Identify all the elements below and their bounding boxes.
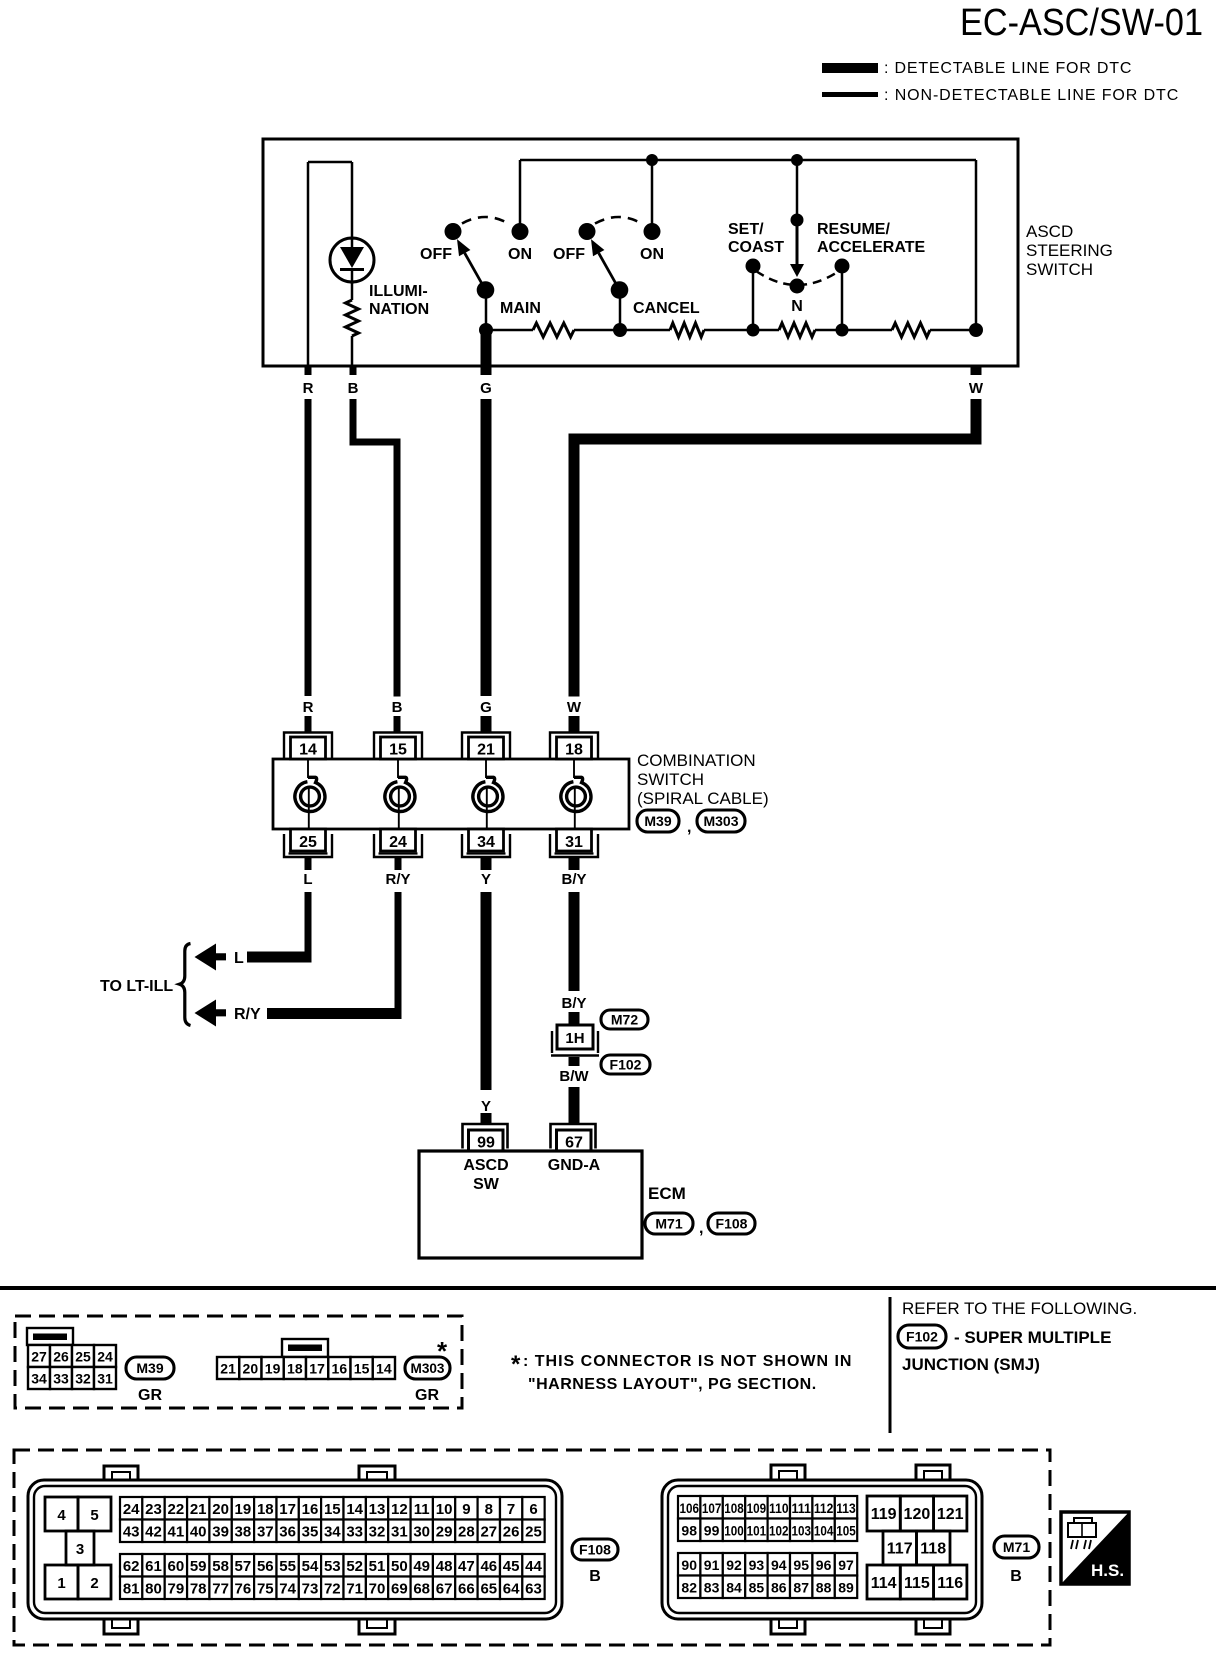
svg-text:R/Y: R/Y	[234, 1006, 261, 1023]
svg-text:1H: 1H	[565, 1030, 584, 1047]
svg-text:: DETECTABLE LINE FOR DTC: : DETECTABLE LINE FOR DTC	[884, 60, 1132, 77]
svg-text:4: 4	[57, 1507, 66, 1524]
svg-text:118: 118	[920, 1541, 946, 1558]
connector face M39	[27, 1328, 73, 1345]
svg-text:84: 84	[726, 1580, 742, 1596]
connector id M72	[601, 1010, 648, 1029]
spiral cable coil 18	[561, 777, 591, 811]
svg-text:69: 69	[391, 1581, 408, 1598]
wire BY stub above 1H	[569, 1012, 580, 1025]
svg-text:: NON-DETECTABLE LINE FOR DTC: : NON-DETECTABLE LINE FOR DTC	[884, 87, 1179, 104]
wire B stub below box	[350, 366, 357, 375]
legend non-detectable line bar	[822, 92, 878, 97]
svg-text:23: 23	[145, 1501, 162, 1518]
svg-text:2: 2	[90, 1575, 98, 1592]
svg-text:9: 9	[462, 1501, 470, 1518]
wire R stub above pin14	[305, 716, 312, 733]
svg-text:16: 16	[302, 1501, 319, 1518]
svg-text:L: L	[234, 950, 244, 967]
wire W stub below box	[971, 366, 982, 375]
dashed ECM connector box	[14, 1450, 1050, 1645]
svg-text:M39: M39	[644, 813, 671, 829]
svg-text:B/Y: B/Y	[561, 995, 586, 1012]
svg-text:REFER TO THE FOLLOWING.: REFER TO THE FOLLOWING.	[902, 1299, 1137, 1318]
svg-text:M303: M303	[703, 813, 738, 829]
svg-text:R: R	[303, 380, 314, 397]
wire bottom bus seg2	[574, 329, 670, 332]
svg-text:104: 104	[814, 1523, 834, 1539]
connector id F102	[601, 1055, 650, 1074]
wire BW stub below 1H	[569, 1057, 580, 1066]
svg-text:33: 33	[53, 1371, 69, 1387]
connector id M39	[637, 810, 679, 832]
svg-text:53: 53	[324, 1558, 341, 1575]
contact RESUME/ACCELERATE	[835, 259, 850, 274]
svg-text:60: 60	[168, 1558, 185, 1575]
svg-text:GR: GR	[138, 1387, 162, 1404]
svg-text:19: 19	[235, 1501, 252, 1518]
svg-text:62: 62	[123, 1558, 140, 1575]
wire CANCEL pivot to bus	[619, 289, 622, 330]
svg-text:17: 17	[309, 1361, 325, 1377]
wire SET to bus	[752, 266, 755, 330]
svg-text:98: 98	[681, 1523, 697, 1539]
svg-text:73: 73	[302, 1581, 319, 1598]
switch CANCEL arm	[599, 253, 620, 290]
connector face M71	[771, 1465, 805, 1480]
svg-text:70: 70	[369, 1581, 386, 1598]
svg-text:15: 15	[324, 1501, 341, 1518]
svg-text:24: 24	[123, 1501, 140, 1518]
svg-text:H.S.: H.S.	[1091, 1561, 1124, 1580]
svg-text:99: 99	[477, 1135, 495, 1152]
svg-text:110: 110	[769, 1500, 789, 1516]
arrow L	[195, 944, 227, 971]
svg-text:74: 74	[279, 1581, 296, 1598]
svg-text:L: L	[303, 871, 312, 888]
SMJ connector 1H	[557, 1025, 593, 1049]
svg-text:F102: F102	[610, 1057, 642, 1073]
svg-text:55: 55	[279, 1558, 296, 1575]
connector id F102 legend	[898, 1325, 946, 1348]
svg-text:96: 96	[816, 1557, 832, 1573]
svg-text:24: 24	[389, 834, 407, 851]
svg-text:97: 97	[838, 1557, 854, 1573]
svg-text:ACCELERATE: ACCELERATE	[817, 239, 925, 256]
wire G vertical	[481, 399, 492, 696]
svg-text:25: 25	[525, 1524, 542, 1541]
svg-text:Y: Y	[481, 1098, 491, 1115]
spiral cable coil 15	[385, 777, 415, 811]
svg-text:34: 34	[477, 834, 495, 851]
pin 21	[462, 733, 510, 760]
svg-text:45: 45	[503, 1558, 520, 1575]
svg-text:(SPIRAL CABLE): (SPIRAL CABLE)	[637, 789, 769, 808]
switch MAIN OFF contact	[445, 223, 462, 240]
pin 18	[550, 733, 598, 760]
node N	[790, 279, 805, 294]
combination switch box	[273, 759, 629, 829]
svg-text:65: 65	[480, 1581, 497, 1598]
svg-text:115: 115	[904, 1575, 930, 1592]
svg-text:71: 71	[346, 1581, 363, 1598]
svg-text:29: 29	[436, 1524, 453, 1541]
svg-text:M72: M72	[611, 1012, 638, 1028]
connector id M39 face	[126, 1357, 174, 1379]
svg-text:17: 17	[279, 1501, 296, 1518]
svg-text:11: 11	[414, 1501, 430, 1518]
wire through spiral 15	[397, 759, 399, 778]
ECM pin 99	[463, 1124, 508, 1149]
svg-text:,: ,	[699, 1220, 703, 1237]
svg-text:31: 31	[97, 1371, 113, 1387]
svg-text:R/Y: R/Y	[385, 871, 410, 888]
wire bottom bus seg4	[815, 329, 892, 332]
svg-text:RESUME/: RESUME/	[817, 221, 890, 238]
svg-text:NATION: NATION	[369, 301, 429, 318]
wire RY vertical	[395, 892, 402, 1019]
wire B to LED	[351, 162, 354, 240]
svg-text:42: 42	[145, 1524, 162, 1541]
arrow R/Y	[195, 1000, 227, 1027]
svg-text:14: 14	[346, 1501, 363, 1518]
svg-text:101: 101	[747, 1523, 767, 1539]
svg-text:STEERING: STEERING	[1026, 241, 1113, 260]
connector face M303	[282, 1339, 328, 1357]
svg-text:49: 49	[413, 1558, 430, 1575]
svg-text:14: 14	[299, 742, 317, 759]
node dot bus-SET2	[747, 324, 760, 337]
wire W stub above pin18	[569, 716, 580, 733]
svg-text:85: 85	[749, 1580, 765, 1596]
svg-text:52: 52	[346, 1558, 363, 1575]
connector id F108	[708, 1213, 755, 1234]
svg-text:15: 15	[354, 1361, 370, 1377]
svg-text:25: 25	[75, 1349, 91, 1365]
svg-text:SWITCH: SWITCH	[1026, 260, 1093, 279]
resistor R-set	[779, 323, 815, 337]
pin 14	[284, 733, 332, 760]
resistor R-main	[533, 323, 574, 337]
resistor illumination	[351, 282, 354, 300]
wire BY vertical	[569, 892, 580, 991]
wire L vertical	[305, 892, 312, 963]
dashed arc SET-N-RESUME	[756, 271, 839, 285]
svg-text:OFF: OFF	[553, 246, 585, 263]
ASCD steering switch box	[263, 139, 1018, 366]
wire RESUME to bus	[841, 266, 844, 330]
svg-text:37: 37	[257, 1524, 274, 1541]
svg-text:B/Y: B/Y	[561, 871, 586, 888]
node dot bus-W	[969, 323, 983, 337]
svg-text:68: 68	[413, 1581, 430, 1598]
switch CANCEL riser	[651, 160, 654, 232]
svg-text:G: G	[480, 380, 492, 397]
switch MAIN arm	[465, 253, 486, 290]
arrow to N	[796, 220, 799, 266]
svg-text:43: 43	[123, 1524, 140, 1541]
svg-text:ON: ON	[508, 246, 532, 263]
vertical divider	[889, 1297, 892, 1433]
svg-text:82: 82	[681, 1580, 697, 1596]
svg-text:48: 48	[436, 1558, 453, 1575]
svg-text:ILLUMI-: ILLUMI-	[369, 283, 428, 300]
wire G thick inside box	[481, 330, 492, 366]
svg-text:20: 20	[243, 1361, 259, 1377]
svg-text:27: 27	[31, 1349, 47, 1365]
svg-text:N: N	[791, 298, 803, 315]
svg-text:EC-ASC/SW-01: EC-ASC/SW-01	[960, 2, 1203, 44]
H.S. view icon	[1061, 1512, 1129, 1584]
svg-text:7: 7	[507, 1501, 515, 1518]
resistor R-resume	[892, 323, 930, 337]
svg-text:*: *	[511, 1351, 521, 1378]
svg-text:W: W	[567, 699, 582, 716]
svg-text:58: 58	[212, 1558, 229, 1575]
svg-text:78: 78	[190, 1581, 207, 1598]
svg-text:"HARNESS LAYOUT", PG SECTION.: "HARNESS LAYOUT", PG SECTION.	[528, 1376, 817, 1393]
pin 25	[284, 834, 332, 857]
node dot bus-SET	[791, 154, 803, 166]
svg-text:95: 95	[793, 1557, 809, 1573]
connector id M71 face	[994, 1536, 1039, 1558]
switch CANCEL pivot	[611, 281, 629, 299]
svg-text:20: 20	[212, 1501, 229, 1518]
svg-text:33: 33	[346, 1524, 363, 1541]
svg-text:JUNCTION (SMJ): JUNCTION (SMJ)	[902, 1355, 1040, 1374]
dashed connector box	[15, 1316, 462, 1408]
wire BY stub below pin31	[569, 857, 580, 870]
svg-text:103: 103	[791, 1523, 811, 1539]
svg-text:107: 107	[702, 1500, 722, 1516]
svg-text:M39: M39	[136, 1360, 163, 1376]
svg-text:15: 15	[389, 742, 407, 759]
connector id M303 face	[405, 1357, 450, 1379]
svg-text:67: 67	[565, 1135, 583, 1152]
svg-text:39: 39	[212, 1524, 229, 1541]
wire MAIN pivot to bus	[485, 289, 488, 330]
wire R vertical	[305, 399, 312, 696]
svg-text:80: 80	[145, 1581, 162, 1598]
connector id F108 face	[572, 1539, 618, 1560]
wire right riser W	[975, 160, 978, 330]
svg-text:16: 16	[332, 1361, 348, 1377]
wire bottom bus seg1	[486, 329, 533, 332]
wire G stub below box	[481, 366, 492, 375]
svg-text:B: B	[1010, 1568, 1022, 1585]
svg-text:B: B	[589, 1568, 601, 1585]
svg-text:34: 34	[31, 1371, 47, 1387]
spiral cable coil 21	[473, 777, 503, 811]
svg-text:46: 46	[480, 1558, 497, 1575]
svg-text:19: 19	[265, 1361, 281, 1377]
node dot SET riser	[791, 214, 804, 227]
horizontal rule	[0, 1286, 1216, 1290]
svg-text:56: 56	[257, 1558, 274, 1575]
svg-text:SWITCH: SWITCH	[637, 770, 704, 789]
svg-text:47: 47	[458, 1558, 475, 1575]
svg-text:66: 66	[458, 1581, 475, 1598]
svg-text:31: 31	[391, 1524, 408, 1541]
wire L stub below pin25	[305, 857, 312, 870]
svg-text:59: 59	[190, 1558, 207, 1575]
svg-text:92: 92	[726, 1557, 742, 1573]
switch MAIN riser	[519, 160, 522, 232]
pin 34	[462, 834, 510, 857]
svg-text:SW: SW	[473, 1176, 500, 1193]
svg-text:MAIN: MAIN	[500, 300, 541, 317]
svg-text:111: 111	[791, 1500, 811, 1516]
contact SET/COAST	[746, 259, 761, 274]
svg-text:34: 34	[324, 1524, 341, 1541]
svg-text:36: 36	[279, 1524, 296, 1541]
svg-text:67: 67	[436, 1581, 453, 1598]
svg-text:94: 94	[771, 1557, 787, 1573]
wire through spiral 18	[573, 759, 575, 778]
svg-text:COAST: COAST	[728, 239, 784, 256]
svg-text:21: 21	[190, 1501, 207, 1518]
svg-text:89: 89	[838, 1580, 854, 1596]
svg-text:57: 57	[235, 1558, 252, 1575]
svg-text:30: 30	[413, 1524, 430, 1541]
wire bottom bus seg3	[704, 329, 779, 332]
switch MAIN ON contact	[512, 223, 529, 240]
svg-text:18: 18	[287, 1361, 303, 1377]
svg-text:35: 35	[302, 1524, 319, 1541]
svg-text:24: 24	[97, 1349, 113, 1365]
svg-text:44: 44	[525, 1558, 542, 1575]
svg-text:B/W: B/W	[559, 1068, 589, 1085]
svg-text:64: 64	[503, 1581, 520, 1598]
svg-text:21: 21	[477, 742, 495, 759]
wire W vertical jog	[971, 399, 982, 445]
svg-text:76: 76	[235, 1581, 252, 1598]
svg-text:31: 31	[565, 834, 583, 851]
svg-text:ASCD: ASCD	[1026, 222, 1073, 241]
svg-text:W: W	[969, 380, 984, 397]
svg-text:8: 8	[485, 1501, 493, 1518]
legend detectable line bar	[822, 63, 878, 73]
svg-text:F102: F102	[906, 1329, 938, 1345]
LED illumination D1	[330, 238, 374, 282]
svg-text:83: 83	[704, 1580, 720, 1596]
svg-text:R: R	[303, 699, 314, 716]
svg-text:21: 21	[220, 1361, 236, 1377]
svg-text:114: 114	[871, 1575, 897, 1592]
switch MAIN dashed arc	[462, 217, 509, 224]
svg-text:F108: F108	[716, 1216, 748, 1232]
svg-text:41: 41	[168, 1524, 185, 1541]
svg-text:OFF: OFF	[420, 246, 452, 263]
switch MAIN pivot	[477, 281, 495, 299]
svg-text:117: 117	[887, 1541, 913, 1558]
svg-text:50: 50	[391, 1558, 408, 1575]
svg-text:GND-A: GND-A	[548, 1157, 601, 1174]
switch CANCEL dashed arc	[595, 217, 642, 224]
svg-text:ECM: ECM	[648, 1184, 686, 1203]
connector face F108	[104, 1466, 138, 1481]
svg-text:63: 63	[525, 1581, 542, 1598]
svg-text:26: 26	[503, 1524, 520, 1541]
resistor R-cancel	[670, 323, 704, 337]
svg-text:40: 40	[190, 1524, 207, 1541]
svg-text:GR: GR	[415, 1387, 439, 1404]
svg-text:1: 1	[57, 1575, 65, 1592]
svg-text:102: 102	[769, 1523, 789, 1539]
svg-text:SET/: SET/	[728, 221, 764, 238]
svg-text:87: 87	[793, 1580, 809, 1596]
svg-text:32: 32	[369, 1524, 386, 1541]
svg-text:CANCEL: CANCEL	[633, 300, 700, 317]
svg-text:ON: ON	[640, 246, 664, 263]
wire through spiral 14	[307, 759, 309, 778]
svg-text:3: 3	[76, 1541, 84, 1558]
wire Y stub above pin99	[481, 1113, 492, 1124]
svg-text:M303: M303	[411, 1360, 445, 1376]
svg-text:88: 88	[816, 1580, 832, 1596]
node dot bus-CANCEL-pivot	[613, 323, 627, 337]
wire SET riser	[796, 160, 799, 220]
ECM box	[419, 1151, 642, 1258]
svg-text:25: 25	[299, 834, 317, 851]
svg-text:G: G	[480, 699, 492, 716]
svg-text:Y: Y	[481, 871, 491, 888]
brace	[180, 944, 191, 1026]
svg-text:ASCD: ASCD	[463, 1157, 508, 1174]
svg-text:22: 22	[168, 1501, 185, 1518]
svg-text:81: 81	[123, 1581, 140, 1598]
svg-text:38: 38	[235, 1524, 252, 1541]
wire R stub below box	[305, 366, 312, 375]
svg-text:6: 6	[529, 1501, 537, 1518]
svg-text:26: 26	[53, 1349, 69, 1365]
svg-text:113: 113	[836, 1500, 856, 1516]
svg-text:105: 105	[836, 1523, 856, 1539]
svg-text:54: 54	[302, 1558, 319, 1575]
svg-text:- SUPER MULTIPLE: - SUPER MULTIPLE	[954, 1328, 1111, 1347]
wire G stub above pin21	[481, 716, 492, 733]
wire Y vertical	[481, 892, 492, 1090]
svg-text:10: 10	[436, 1501, 453, 1518]
svg-text:99: 99	[704, 1523, 720, 1539]
svg-text:18: 18	[257, 1501, 274, 1518]
svg-text:77: 77	[212, 1581, 229, 1598]
wire through spiral 21	[485, 759, 487, 778]
svg-text:86: 86	[771, 1580, 787, 1596]
svg-text:61: 61	[145, 1558, 162, 1575]
svg-text:12: 12	[391, 1501, 408, 1518]
svg-text:13: 13	[369, 1501, 386, 1518]
wire RY stub below pin24	[395, 857, 402, 870]
svg-text:M71: M71	[1003, 1539, 1030, 1555]
svg-text:109: 109	[747, 1500, 767, 1516]
ECM pin 67	[551, 1124, 596, 1149]
svg-text:90: 90	[681, 1557, 697, 1573]
svg-text:75: 75	[257, 1581, 274, 1598]
svg-text:14: 14	[376, 1361, 392, 1377]
pin 24	[374, 834, 422, 857]
wire R inside box	[307, 162, 310, 366]
svg-text:M71: M71	[655, 1216, 682, 1232]
svg-text:F108: F108	[579, 1542, 611, 1558]
node dot bus-CANCEL	[646, 154, 658, 166]
svg-text:32: 32	[75, 1371, 91, 1387]
svg-text:112: 112	[814, 1500, 834, 1516]
svg-text:27: 27	[480, 1524, 497, 1541]
wire top bus	[520, 159, 976, 162]
wire B stub above pin15	[394, 716, 401, 733]
svg-text:121: 121	[937, 1506, 964, 1523]
